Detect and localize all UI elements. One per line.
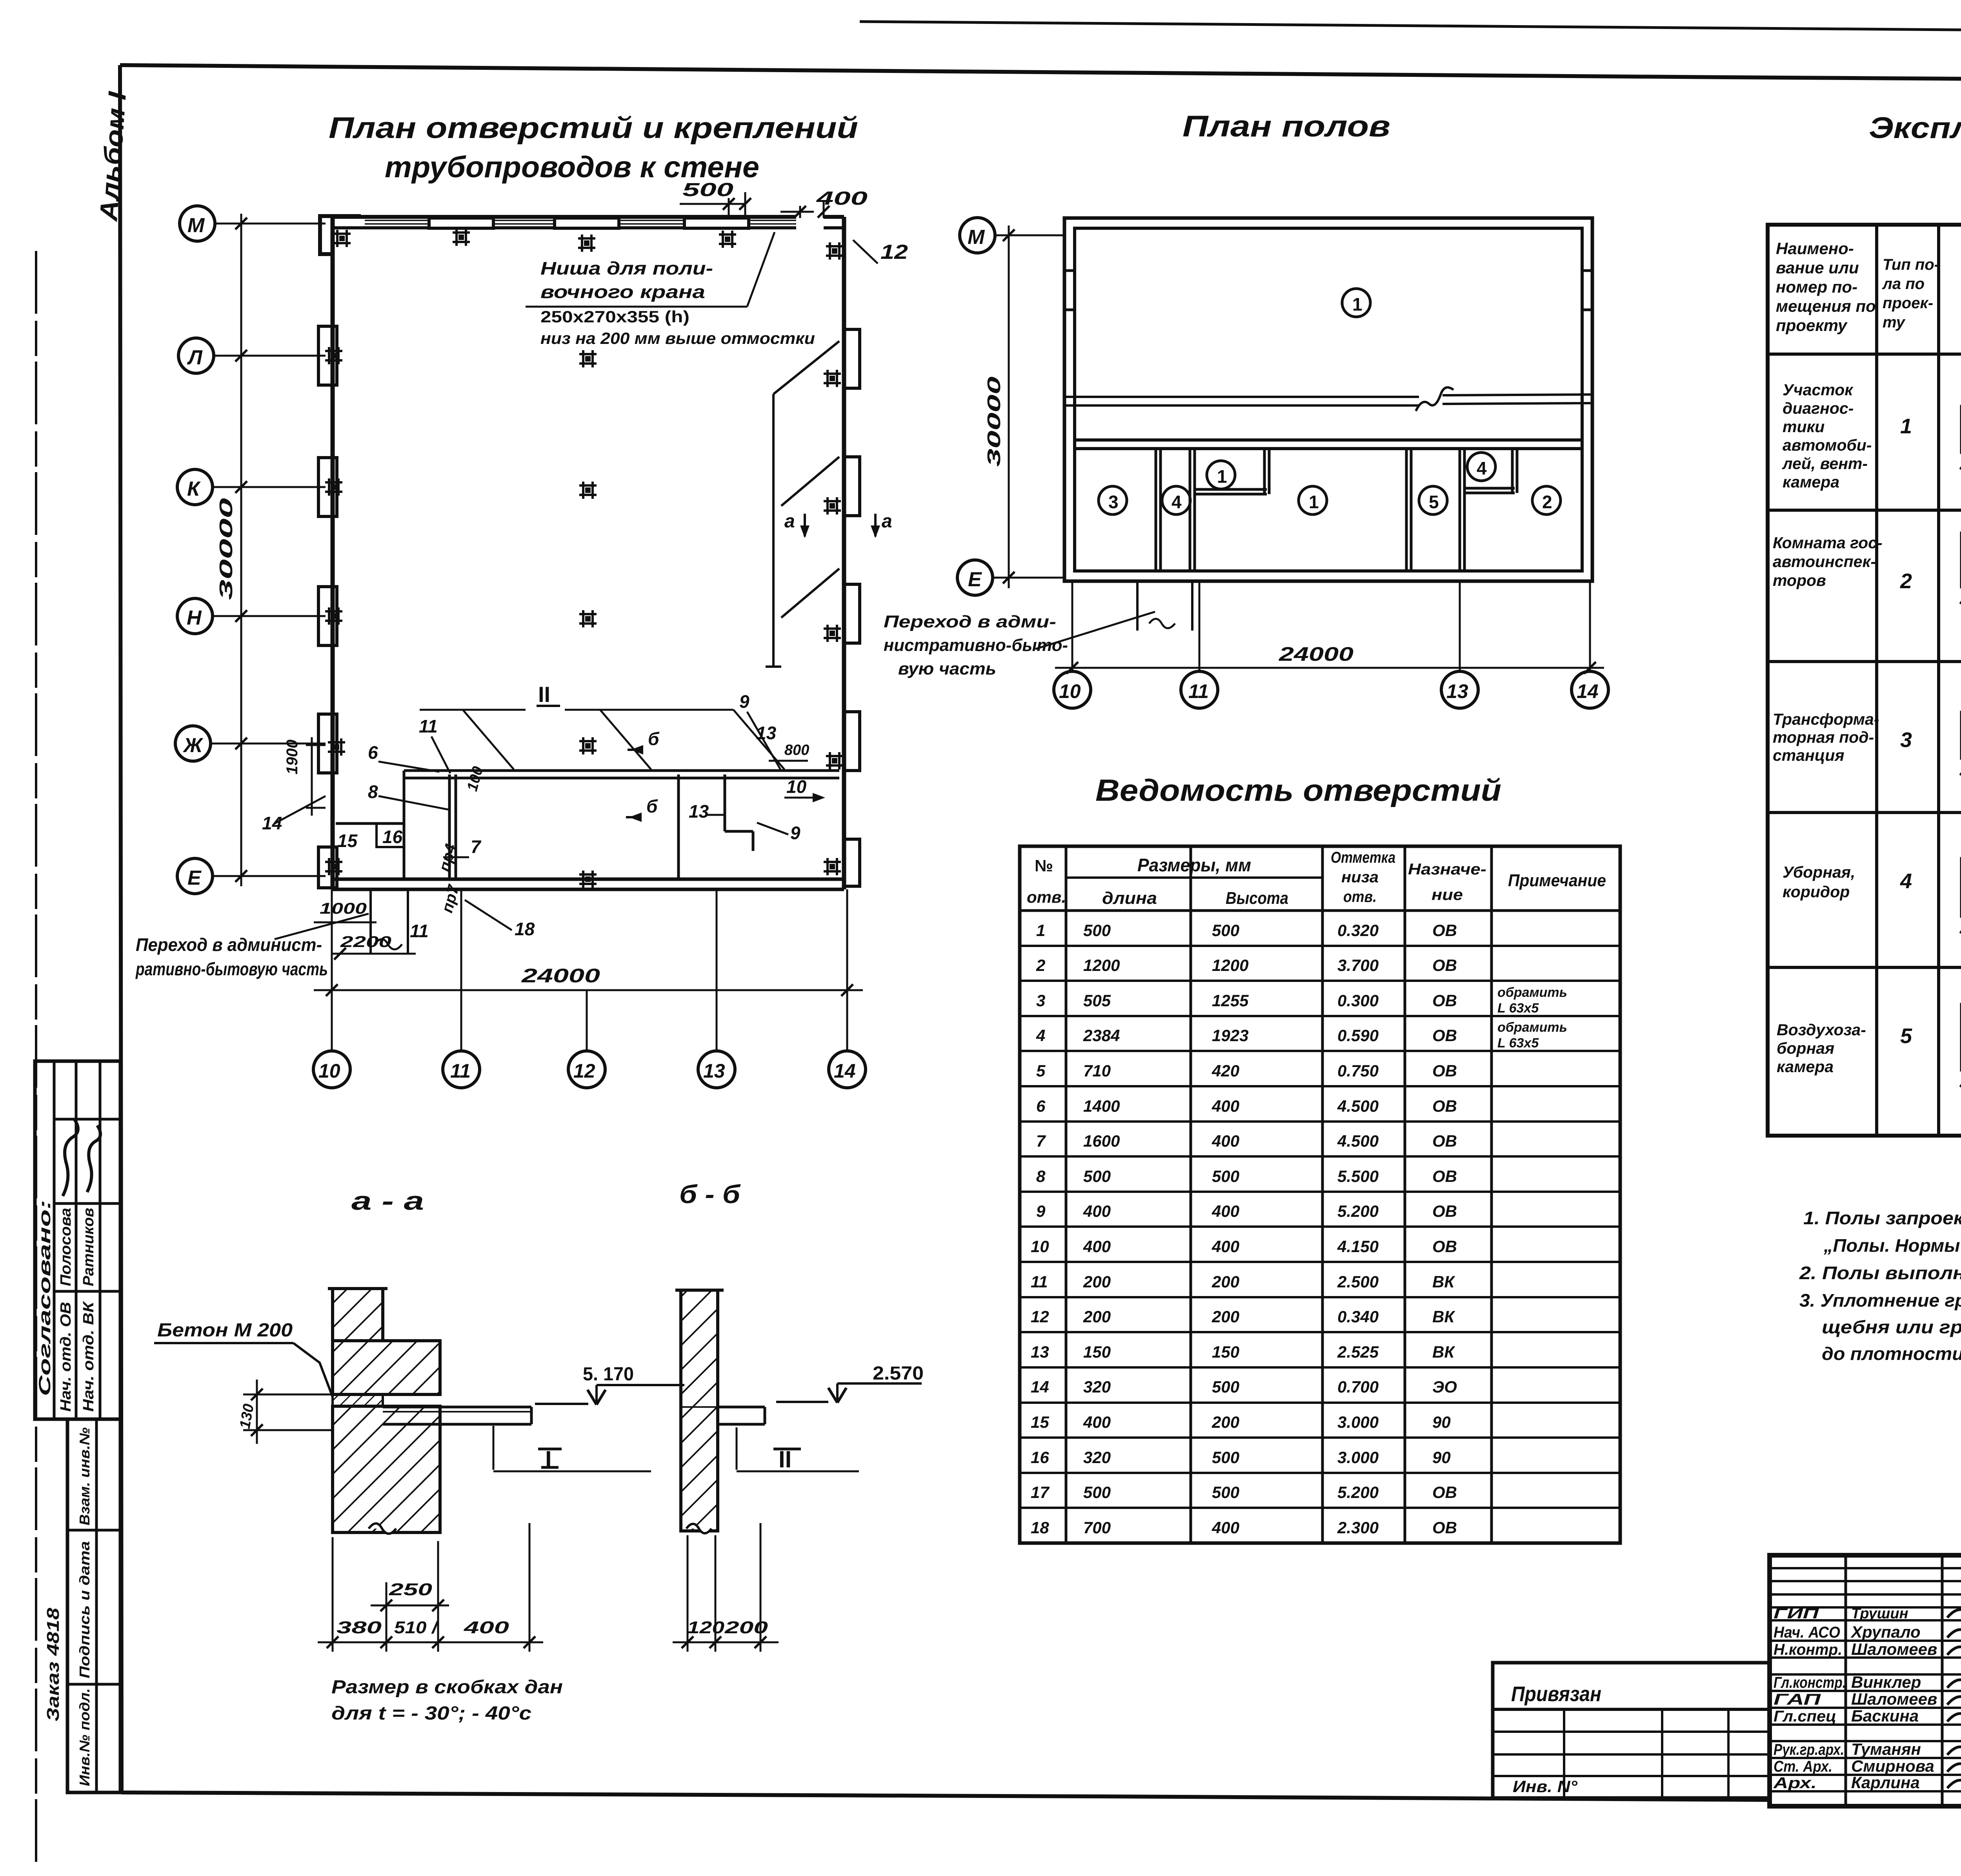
- opening row 2: [1036, 956, 1457, 974]
- svg-text:4: 4: [1900, 869, 1912, 893]
- svg-text:7: 7: [1036, 1132, 1046, 1150]
- svg-text:Е: Е: [968, 568, 982, 591]
- svg-text:ла по: ла по: [1882, 275, 1925, 293]
- svg-text:4: 4: [1036, 1026, 1045, 1045]
- opening row 16: [1031, 1448, 1451, 1467]
- svg-text:Уборная,: Уборная,: [1783, 863, 1855, 881]
- svg-text:3.000: 3.000: [1337, 1413, 1379, 1431]
- svg-text:7: 7: [471, 836, 482, 857]
- svg-text:6: 6: [1036, 1097, 1046, 1115]
- svg-text:18: 18: [515, 919, 535, 939]
- svg-text:15: 15: [1031, 1413, 1049, 1431]
- row lines: [1020, 945, 1620, 947]
- svg-text:Инв. N°: Инв. N°: [1513, 1777, 1578, 1796]
- room circle 4b: [1467, 453, 1495, 481]
- svg-text:4.500: 4.500: [1337, 1132, 1379, 1150]
- svg-text:Отметка: Отметка: [1331, 849, 1395, 866]
- svg-text:200: 200: [1212, 1272, 1239, 1291]
- svg-text:вую часть: вую часть: [898, 659, 996, 678]
- svg-text:11: 11: [1031, 1272, 1048, 1291]
- svg-text:Нач. отд. ВК: Нач. отд. ВК: [80, 1301, 97, 1412]
- svg-text:мещения по: мещения по: [1776, 297, 1876, 315]
- svg-text:К: К: [187, 478, 201, 500]
- svg-text:120: 120: [687, 1618, 725, 1637]
- svg-text:ОВ: ОВ: [1432, 1202, 1457, 1220]
- svg-text:250х270х355 (h): 250х270х355 (h): [540, 307, 689, 326]
- opening row 18: [1031, 1518, 1457, 1537]
- svg-text:13: 13: [1446, 680, 1468, 702]
- svg-text:2: 2: [1542, 492, 1552, 512]
- label 16: [382, 827, 403, 847]
- svg-text:2200: 2200: [340, 933, 391, 951]
- svg-text:Шаломеев: Шаломеев: [1851, 1640, 1937, 1658]
- svg-text:Гл.констр.: Гл.констр.: [1774, 1674, 1846, 1691]
- svg-text:400: 400: [1212, 1132, 1239, 1150]
- label 1900 rot: [284, 737, 326, 816]
- svg-text:5: 5: [1900, 1024, 1912, 1048]
- a-a lower wall: [333, 1406, 440, 1534]
- axis circle 10: [1054, 671, 1091, 708]
- svg-text:ОВ: ОВ: [1432, 1062, 1457, 1080]
- svg-text:13: 13: [1031, 1343, 1049, 1361]
- svg-text:400: 400: [1212, 1097, 1239, 1115]
- svg-text:отв.: отв.: [1343, 888, 1377, 905]
- svg-text:24000: 24000: [521, 965, 600, 987]
- svg-text:420: 420: [1212, 1062, 1239, 1080]
- binding columns: [1563, 1709, 1565, 1798]
- signature: [87, 1125, 100, 1192]
- svg-text:Хрупало: Хрупало: [1850, 1623, 1921, 1641]
- partition 1: [1156, 449, 1161, 571]
- svg-text:14: 14: [1031, 1378, 1049, 1396]
- svg-text:2.300: 2.300: [1337, 1518, 1379, 1537]
- svg-text:9: 9: [790, 823, 800, 843]
- svg-text:1: 1: [1309, 492, 1319, 512]
- label б upper: [628, 729, 660, 754]
- svg-text:ОВ: ОВ: [1432, 921, 1457, 940]
- row lines: [1768, 353, 1961, 356]
- svg-text:14: 14: [1577, 680, 1599, 702]
- svg-text:Инв.№ подл.: Инв.№ подл.: [76, 1688, 93, 1786]
- svg-text:4: 4: [1172, 492, 1182, 512]
- break line: [1064, 387, 1592, 411]
- partition 3: [1406, 449, 1411, 571]
- note in brackets: [331, 1677, 563, 1724]
- axis circle 12: [568, 1051, 605, 1088]
- opening row 10: [1031, 1237, 1457, 1256]
- II mark: [737, 1427, 859, 1472]
- column lines: [1875, 225, 1878, 1136]
- wall stubs left: [1064, 271, 1592, 310]
- opening row 1: [1036, 921, 1457, 940]
- svg-text:10: 10: [786, 776, 807, 797]
- svg-text:8: 8: [368, 782, 378, 802]
- svg-text:пр7: пр7: [438, 883, 462, 915]
- svg-text:3.700: 3.700: [1337, 956, 1379, 974]
- svg-text:ВК: ВК: [1432, 1343, 1455, 1361]
- binding table box: [1493, 1663, 1770, 1798]
- opening row 15: [1031, 1413, 1451, 1431]
- opening row 4: [1036, 1020, 1567, 1051]
- svg-text:9: 9: [1036, 1202, 1046, 1220]
- svg-text:Согласовано:: Согласовано:: [35, 1200, 54, 1396]
- dimension 30000 vertical: [984, 225, 1015, 588]
- svg-text:16: 16: [382, 827, 403, 847]
- svg-text:13: 13: [689, 801, 709, 822]
- svg-text:3: 3: [1900, 728, 1912, 752]
- title block main verticals: [1845, 1555, 1847, 1806]
- svg-text:Заказ 4818: Заказ 4818: [44, 1607, 63, 1721]
- svg-text:ЭО: ЭО: [1432, 1378, 1457, 1396]
- svg-text:План отверстий и креплений: План отверстий и креплений: [329, 111, 858, 145]
- svg-text:ГИП: ГИП: [1774, 1605, 1819, 1622]
- svg-text:710: 710: [1083, 1062, 1111, 1080]
- svg-text:Шаломеев: Шаломеев: [1851, 1690, 1937, 1708]
- svg-text:Размеры, мм: Размеры, мм: [1137, 855, 1251, 875]
- svg-text:лей, вент-: лей, вент-: [1782, 454, 1868, 473]
- svg-text:„Полы. Нормы проектирования.“: „Полы. Нормы проектирования.“: [1823, 1235, 1961, 1256]
- svg-text:Трушин: Трушин: [1851, 1605, 1908, 1622]
- svg-text:ОВ: ОВ: [1432, 1167, 1457, 1185]
- svg-text:ОВ: ОВ: [1432, 1097, 1457, 1115]
- row 5 room name: [1777, 1021, 1866, 1076]
- label 10 arrow: [784, 776, 825, 802]
- room circle 1 closet: [1207, 461, 1235, 489]
- svg-text:Карлина: Карлина: [1851, 1773, 1920, 1792]
- svg-text:200: 200: [1212, 1413, 1239, 1431]
- axis circle 13: [1441, 671, 1478, 708]
- svg-text:2.570: 2.570: [873, 1363, 924, 1384]
- svg-text:вание или: вание или: [1776, 258, 1859, 277]
- label 13 top: [756, 723, 777, 743]
- opening row 9: [1036, 1202, 1457, 1220]
- svg-text:номер по-: номер по-: [1776, 278, 1857, 296]
- building outline inner: [1075, 228, 1582, 571]
- wall pilasters left: [318, 216, 361, 888]
- label 18: [465, 900, 535, 939]
- svg-text:1: 1: [1900, 414, 1912, 438]
- svg-text:11: 11: [450, 1060, 471, 1082]
- opening row 8: [1036, 1167, 1457, 1185]
- a-a foundation block: [333, 1341, 440, 1394]
- svg-text:щебня или гравия крупность: щебня или гравия крупностью 40-60 мм тол…: [1822, 1317, 1961, 1337]
- svg-text:автоинспек-: автоинспек-: [1773, 553, 1876, 571]
- svg-text:8: 8: [1036, 1167, 1046, 1185]
- svg-text:обрамить: обрамить: [1497, 1020, 1567, 1035]
- svg-text:320: 320: [1083, 1378, 1111, 1396]
- interior column crosses: [579, 350, 597, 888]
- svg-text:10: 10: [1031, 1237, 1049, 1256]
- svg-text:Бетон М 200: Бетон М 200: [157, 1320, 293, 1341]
- table column lines: [1065, 846, 1068, 1543]
- svg-text:обрамить: обрамить: [1497, 985, 1567, 1000]
- leader diagonals to interior wall: [463, 710, 784, 769]
- left part row lines: [1770, 1567, 1961, 1569]
- svg-text:250: 250: [389, 1580, 433, 1599]
- svg-text:L 63х5: L 63х5: [1497, 1001, 1539, 1016]
- axis circle Н: [177, 598, 326, 634]
- lower stamp box: [67, 1419, 120, 1792]
- axis circle 11: [1181, 671, 1218, 708]
- svg-text:а: а: [784, 511, 795, 532]
- concrete label: [154, 1320, 333, 1397]
- header lines: [1066, 876, 1322, 879]
- svg-text:500: 500: [1212, 1483, 1239, 1502]
- dim line b-b: [673, 1618, 779, 1648]
- svg-text:5.500: 5.500: [1337, 1167, 1379, 1185]
- niche annotation: [526, 232, 815, 347]
- svg-text:5: 5: [1429, 492, 1439, 512]
- room circle 5: [1419, 486, 1447, 514]
- frame left line: [120, 65, 122, 1792]
- a-a slab band: [333, 1394, 383, 1406]
- table outer box: [1020, 846, 1620, 1543]
- svg-text:нистративно-быто-: нистративно-быто-: [884, 636, 1068, 655]
- svg-text:II: II: [538, 682, 550, 707]
- svg-text:0.320: 0.320: [1337, 921, 1379, 940]
- label 9 lower: [757, 823, 800, 843]
- label 11: [419, 716, 450, 773]
- small rooms bottom left: [336, 771, 404, 879]
- svg-text:Гл.спец: Гл.спец: [1774, 1708, 1836, 1725]
- svg-text:90: 90: [1432, 1448, 1451, 1467]
- room 1 circle upper: [1342, 289, 1370, 317]
- svg-text:ОВ: ОВ: [1432, 1237, 1457, 1256]
- svg-text:Е: Е: [187, 867, 202, 889]
- svg-text:автомоби-: автомоби-: [1783, 436, 1872, 454]
- svg-text:500: 500: [1212, 921, 1239, 940]
- svg-text:коридор: коридор: [1783, 883, 1850, 901]
- svg-text:№: №: [1035, 856, 1053, 875]
- svg-text:500: 500: [1083, 1483, 1111, 1502]
- svg-text:Нач. отд. ОВ: Нач. отд. ОВ: [58, 1302, 74, 1412]
- axis circle M: [180, 206, 326, 241]
- svg-text:Н: Н: [187, 607, 202, 629]
- top wall: [333, 217, 844, 228]
- axis circle Е: [957, 560, 1064, 595]
- b-b floor slab: [681, 1407, 765, 1424]
- svg-text:6: 6: [368, 742, 378, 763]
- frame top line: [120, 65, 1961, 82]
- svg-text:2.525: 2.525: [1337, 1343, 1379, 1361]
- svg-text:Альбом I: Альбом I: [94, 90, 131, 223]
- label 15: [337, 831, 358, 851]
- label 13 lower: [689, 801, 725, 822]
- svg-text:30000: 30000: [216, 498, 236, 600]
- label 9 top: [739, 691, 780, 769]
- svg-text:Переход в адми-: Переход в адми-: [884, 612, 1056, 631]
- svg-text:505: 505: [1083, 991, 1111, 1010]
- dim line a-a: [318, 1618, 543, 1648]
- svg-text:11: 11: [419, 716, 438, 736]
- section mark a left: [784, 511, 810, 538]
- svg-text:700: 700: [1083, 1518, 1111, 1537]
- label 7: [443, 836, 482, 857]
- opening row 11: [1031, 1272, 1455, 1291]
- svg-text:2384: 2384: [1083, 1026, 1120, 1045]
- frame bottom line: [122, 1792, 1770, 1800]
- room circle 4: [1162, 486, 1190, 514]
- svg-text:торов: торов: [1773, 571, 1826, 589]
- svg-text:30000: 30000: [984, 376, 1004, 467]
- svg-text:Взам. инв.№: Взам. инв.№: [76, 1427, 93, 1525]
- interior partition 1: [449, 774, 456, 879]
- svg-text:11: 11: [1188, 680, 1209, 702]
- dimension 24000: [1055, 581, 1604, 674]
- room circle 2: [1532, 486, 1561, 514]
- approval stamp box: [35, 1061, 120, 1419]
- svg-text:диагнос-: диагнос-: [1783, 399, 1854, 417]
- opening row 13: [1031, 1343, 1455, 1361]
- svg-text:торная под-: торная под-: [1773, 728, 1874, 746]
- svg-text:Баскина: Баскина: [1851, 1707, 1919, 1725]
- svg-text:1200: 1200: [1083, 956, 1120, 974]
- svg-text:400: 400: [1212, 1202, 1239, 1220]
- svg-text:а: а: [882, 511, 892, 532]
- row 4 room name: [1783, 863, 1855, 901]
- axis circle M: [960, 218, 1064, 253]
- binding rows: [1493, 1731, 1770, 1733]
- svg-text:ративно-бытовую часть: ративно-бытовую часть: [135, 959, 328, 979]
- svg-text:Н.контр.: Н.контр.: [1774, 1641, 1842, 1658]
- name labels: [1850, 1605, 1937, 1792]
- svg-text:ВК: ВК: [1432, 1307, 1455, 1326]
- svg-text:200: 200: [1083, 1307, 1111, 1326]
- svg-text:станция: станция: [1773, 746, 1845, 764]
- label б lower: [626, 796, 658, 822]
- svg-text:0.300: 0.300: [1337, 991, 1379, 1010]
- opening row 6: [1036, 1097, 1457, 1115]
- svg-text:130: 130: [237, 1403, 257, 1430]
- svg-text:10: 10: [318, 1060, 340, 1082]
- svg-text:проек-: проек-: [1883, 294, 1933, 312]
- opening row 14: [1031, 1378, 1457, 1396]
- svg-text:камера: камера: [1777, 1058, 1834, 1076]
- dim 250: [371, 1580, 449, 1611]
- svg-text:12: 12: [1031, 1307, 1049, 1326]
- svg-text:150: 150: [1083, 1343, 1111, 1361]
- svg-text:проекту: проекту: [1776, 316, 1848, 334]
- svg-text:4.150: 4.150: [1337, 1237, 1379, 1256]
- svg-text:510 /: 510 /: [394, 1618, 439, 1637]
- svg-text:500: 500: [1083, 921, 1111, 940]
- svg-text:1: 1: [1352, 294, 1363, 314]
- opening row 3: [1036, 985, 1567, 1016]
- row 2 schema: [1960, 522, 1961, 604]
- crossing label text: [135, 914, 369, 979]
- svg-text:3: 3: [1036, 991, 1045, 1010]
- svg-text:отв.: отв.: [1027, 888, 1066, 906]
- svg-text:4.500: 4.500: [1337, 1097, 1379, 1115]
- partition 4: [1460, 449, 1464, 571]
- axis circle 14: [829, 1051, 866, 1088]
- svg-text:3: 3: [1108, 492, 1119, 512]
- svg-text:низа: низа: [1341, 869, 1379, 886]
- svg-text:Л: Л: [187, 346, 203, 369]
- svg-text:3. Уплотнение грунта производ: 3. Уплотнение грунта производить трамбов…: [1799, 1290, 1961, 1311]
- dimension 24000 bottom: [314, 889, 863, 1051]
- svg-text:вочного крана: вочного крана: [540, 282, 705, 302]
- signatures: [1947, 1603, 1961, 1788]
- room circle 3: [1099, 486, 1127, 514]
- svg-text:ВК: ВК: [1432, 1272, 1455, 1291]
- svg-text:400: 400: [463, 1618, 509, 1637]
- axis circle 10: [313, 1051, 350, 1088]
- svg-text:Трансформа-: Трансформа-: [1773, 710, 1879, 728]
- row 4 schema: [1960, 847, 1961, 933]
- elevation 5.170: [535, 1364, 684, 1405]
- svg-text:5.200: 5.200: [1337, 1483, 1379, 1502]
- svg-text:320: 320: [1083, 1448, 1111, 1467]
- table outer box: [1768, 225, 1961, 1136]
- axis circle 14: [1572, 671, 1608, 708]
- svg-text:200: 200: [1083, 1272, 1111, 1291]
- top wall plates: [429, 218, 749, 228]
- svg-text:Тип по-: Тип по-: [1883, 256, 1939, 273]
- building outline outer: [1064, 218, 1592, 581]
- right wall pilasters: [844, 329, 860, 886]
- svg-text:1255: 1255: [1212, 991, 1249, 1010]
- svg-text:4: 4: [1477, 458, 1487, 478]
- svg-text:17: 17: [1031, 1483, 1050, 1502]
- svg-text:9: 9: [739, 691, 749, 712]
- svg-text:1: 1: [1036, 921, 1045, 940]
- svg-text:Рук.гр.арх.: Рук.гр.арх.: [1774, 1741, 1844, 1758]
- binding label row line: [1493, 1708, 1770, 1711]
- svg-text:Смирнова: Смирнова: [1851, 1757, 1934, 1775]
- opening row 12: [1031, 1307, 1455, 1326]
- svg-text:1200: 1200: [1212, 956, 1248, 974]
- axis circle Л: [178, 338, 326, 373]
- svg-text:Туманян: Туманян: [1851, 1740, 1921, 1758]
- svg-text:13: 13: [756, 723, 777, 743]
- svg-text:Ст. Арх.: Ст. Арх.: [1774, 1758, 1832, 1775]
- left wall: [331, 217, 335, 889]
- svg-text:б: б: [646, 796, 658, 816]
- axis circle Е: [177, 858, 326, 894]
- row 5 schema: [1960, 993, 1961, 1087]
- svg-text:400: 400: [1212, 1237, 1239, 1256]
- dimension 400 at door: [780, 188, 868, 218]
- svg-text:1600: 1600: [1083, 1132, 1120, 1150]
- svg-text:1. Полы запроектированы в со: 1. Полы запроектированы в соответствии с…: [1803, 1208, 1961, 1228]
- label 8: [368, 782, 449, 810]
- label пр7: [438, 883, 462, 915]
- dimension 500 at niche: [680, 180, 751, 218]
- svg-text:0.700: 0.700: [1337, 1378, 1379, 1396]
- svg-text:1000: 1000: [320, 900, 367, 917]
- svg-text:18: 18: [1031, 1518, 1049, 1537]
- svg-text:5. 170: 5. 170: [583, 1364, 634, 1385]
- svg-text:800: 800: [784, 742, 809, 758]
- svg-text:13: 13: [703, 1060, 725, 1082]
- exit passage below: [1137, 581, 1192, 631]
- label 100 rot: [464, 765, 486, 793]
- axis circle К: [177, 469, 326, 505]
- approval stamp inner lines: [53, 1061, 56, 1419]
- svg-text:5: 5: [1036, 1062, 1046, 1080]
- svg-text:500: 500: [1212, 1167, 1239, 1185]
- svg-text:Нач. АСО: Нач. АСО: [1774, 1624, 1840, 1641]
- svg-text:Размер в скобках дан: Размер в скобках дан: [331, 1677, 563, 1698]
- svg-text:1923: 1923: [1212, 1026, 1248, 1045]
- svg-text:12: 12: [573, 1060, 595, 1082]
- svg-text:1900: 1900: [284, 740, 301, 774]
- svg-text:длина: длина: [1102, 889, 1157, 908]
- closet walls: [1195, 449, 1269, 494]
- row 1 schema: [1960, 395, 1961, 469]
- exit passage bottom: [371, 889, 408, 953]
